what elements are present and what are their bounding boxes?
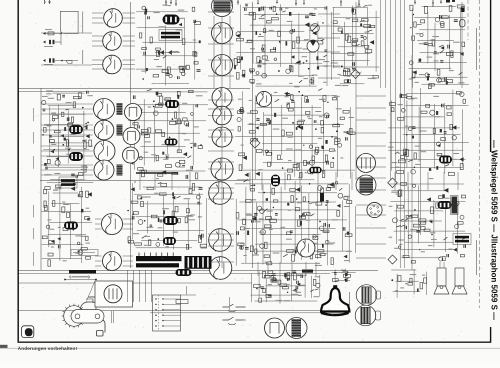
wire: vertical bus x462 bbox=[461, 2, 463, 88]
cable end plug bbox=[97, 331, 104, 337]
connector block (dashed) bbox=[153, 295, 181, 331]
wire: chassis bus y273 bbox=[18, 273, 330, 275]
tube V11 left column bbox=[94, 99, 115, 120]
small dark bar near CRT base bbox=[302, 270, 313, 273]
drum drive lever bbox=[80, 302, 96, 310]
tube top-view T13 below yoke bbox=[176, 269, 192, 276]
wire: horizontal bus below tuner bbox=[18, 91, 130, 93]
diamond test-point D3 bbox=[388, 178, 398, 188]
wire: vertical bus x412 bbox=[411, 55, 413, 270]
tube V15 (PL 500) bbox=[102, 214, 123, 235]
picture tube rim bbox=[321, 312, 349, 317]
circuit wiring: video amplifier bbox=[331, 5, 380, 85]
wire: vertical bus x130 bbox=[130, 2, 132, 268]
IF transformer Tr1 bbox=[161, 32, 180, 35]
circuit wiring: power supply left bbox=[41, 183, 93, 267]
screen rect beside V12 bbox=[117, 125, 123, 136]
loudspeaker LS1 bbox=[437, 268, 446, 286]
publisher logo bbox=[22, 326, 34, 338]
picture tube AW 43-80 bell bbox=[321, 288, 349, 311]
picture tube neck nub bbox=[333, 285, 337, 288]
diamond test-point D2 bbox=[250, 138, 260, 148]
circuit wiring: vertical deflection centre bbox=[235, 89, 355, 180]
svg-text:Änderungen vorbehalten!: Änderungen vorbehalten! bbox=[18, 345, 78, 351]
circuit wiring: speaker wiring right bbox=[391, 269, 427, 298]
tube V2 (EC 92) bbox=[103, 32, 122, 51]
tuning drum body bbox=[71, 310, 104, 324]
tube V12 bbox=[94, 120, 114, 140]
tube top-view T9 vertical bbox=[271, 175, 280, 187]
tube V17 bbox=[209, 182, 232, 205]
tube half-circle column x131 b bbox=[123, 128, 140, 145]
tube V9 bbox=[212, 127, 232, 147]
tube top-view T10 bbox=[309, 167, 322, 174]
tube top-view T11 bbox=[439, 156, 452, 164]
dark block right column bbox=[452, 197, 458, 214]
loudspeaker LS2 bbox=[455, 268, 464, 286]
wire: lower distribution bus bbox=[18, 282, 252, 284]
tube V20 sound output bbox=[357, 154, 376, 173]
wire: CRT grid line bbox=[150, 312, 322, 314]
antenna balun box (Berührungsschutz) bbox=[60, 11, 78, 33]
top edge stubs bbox=[44, 0, 46, 4]
drum cable to plug bbox=[103, 320, 106, 333]
tube top-view T1 bbox=[163, 15, 180, 25]
ion trap partial circle upper bbox=[356, 285, 377, 306]
magic eye indicator bbox=[307, 40, 319, 52]
screen rect beside V11 bbox=[117, 103, 123, 115]
svg-text:— Weltspiegel 5059 S — Jllust: — Weltspiegel 5059 S — Jllustraphon 5059… bbox=[489, 140, 498, 320]
rule: light separator below frame bbox=[0, 347, 500, 349]
tube V21 with screen can bbox=[356, 175, 376, 195]
tube top-view T5 bbox=[69, 152, 83, 161]
tube V19 bbox=[209, 257, 232, 280]
tube V18 bbox=[209, 229, 232, 252]
tube top-view T7 bbox=[163, 216, 178, 225]
wire: HT bus mid left bbox=[40, 180, 250, 182]
ion trap partial circle lower bbox=[355, 305, 376, 326]
value box 6DW 20 ohm label bbox=[71, 250, 98, 256]
circuit wiring: line oscillator mid-left bbox=[126, 90, 208, 179]
wire: left vertical bus bbox=[40, 88, 42, 270]
tube socket view V22 bbox=[367, 202, 382, 217]
frame: right border lower bbox=[490, 327, 492, 343]
width coil black bar bbox=[69, 270, 96, 273]
circuit wiring: focus divider bbox=[332, 269, 356, 283]
wire: vertical bus x252 bbox=[252, 2, 254, 268]
tube V5 (EF 80) bbox=[212, 23, 233, 44]
circuit wiring: tuner / IF strip top bbox=[136, 5, 201, 85]
tube V10 bbox=[211, 158, 233, 180]
tube V4 with screened cage bbox=[212, 0, 233, 17]
inter-section connecting wires bbox=[92, 12, 104, 14]
socket circle in inset bbox=[104, 285, 122, 303]
tube top-view T8 bbox=[163, 237, 176, 245]
inset box: socket detail bbox=[95, 281, 133, 307]
tube V13 bbox=[94, 141, 115, 162]
label strokes along left margin bbox=[33, 108, 35, 121]
rectifier stadium symbol bbox=[460, 20, 466, 28]
gutter filler wires x325-335 bbox=[326, 6, 328, 86]
tube top-view T3 bbox=[165, 139, 178, 146]
wire: antenna lead-in bbox=[43, 32, 61, 34]
circuit wiring: sync separator left bbox=[42, 91, 93, 180]
label: 242 V bbox=[186, 286, 188, 295]
registration mark bottom left edge bbox=[0, 345, 8, 348]
boundary: dashed section border x468 bbox=[467, 0, 469, 40]
diamond test-point D1 bbox=[351, 70, 360, 79]
circuit wiring: audio output right bbox=[388, 90, 469, 179]
dark stubs at top edge right bbox=[446, 0, 450, 3]
frame: bottom border bbox=[18, 341, 491, 343]
label: beside drum bbox=[111, 310, 113, 323]
fuse black rect centre bbox=[320, 193, 324, 202]
deflection yoke winding lower bar bbox=[136, 263, 179, 267]
antenna input components row 3 (0,75 MHz trap) bbox=[43, 59, 46, 62]
IF transformer Tr3 bbox=[455, 236, 469, 239]
tube V14 bbox=[94, 160, 114, 180]
cable run: loom lines top right bbox=[380, 0, 382, 88]
circuit wiring: CRT base wiring bbox=[251, 271, 320, 304]
label: Leitungsfolge (rotated) bbox=[412, 15, 414, 55]
IF transformer Tr2 bbox=[61, 179, 75, 182]
tube V16 (PY 88) bbox=[103, 252, 122, 271]
tube V6 (EF 80) bbox=[212, 55, 233, 76]
tube V8 bbox=[213, 106, 232, 125]
boundary: dashed section border x478 bbox=[479, 0, 481, 308]
top edge connection stubs bbox=[165, 0, 167, 6]
antenna input components row 1 (4,67 µH) bbox=[43, 32, 46, 35]
wire: chassis bus y270 bbox=[18, 270, 378, 272]
loudspeaker symbol circle bbox=[265, 318, 285, 338]
antenna input components row 2 (UKW choke) bbox=[43, 41, 46, 44]
circuit wiring: sound section top right bbox=[409, 5, 469, 89]
tube V7 column circle 1 bbox=[212, 88, 232, 108]
switch contact pair lower bbox=[223, 317, 246, 320]
yoke connection ticks bbox=[138, 253, 140, 257]
wires feeding connector block bbox=[127, 270, 129, 302]
resistor above connector bbox=[176, 300, 188, 304]
tube top-view T2 bbox=[165, 100, 179, 108]
deflection yoke right block with slits bbox=[185, 256, 212, 269]
measure arrows 150 µH bbox=[65, 279, 96, 281]
tube top-view T12 bbox=[438, 201, 452, 209]
fuse black mark top right bbox=[461, 8, 465, 13]
wire: vertical bus x356 bbox=[355, 2, 357, 180]
background speckle (decorative) bbox=[170, 52, 173, 55]
label: vertical text x476 bbox=[476, 28, 478, 70]
frame: right border rule upper bbox=[490, 0, 492, 152]
label: AW 43-80 bbox=[349, 292, 351, 306]
switch contact pair upper bbox=[223, 304, 246, 307]
tuning pointer circle bbox=[311, 24, 320, 33]
label: vertical text right of connector bbox=[229, 297, 231, 311]
label: vertical text right of balun box bbox=[82, 12, 84, 34]
tuning drum gear wheel bbox=[64, 306, 85, 327]
frame: left border bbox=[17, 0, 19, 342]
deflection yoke winding upper bar bbox=[136, 256, 182, 261]
tube V23 ratio detector bbox=[256, 91, 271, 106]
screen rect beside V14 bbox=[117, 165, 123, 176]
tube V1 (EC 92) bbox=[104, 9, 123, 28]
wire: CRT cathode line bbox=[18, 310, 322, 312]
small sockets left of speakers bbox=[376, 291, 381, 299]
wire: horizontal supply bus upper left bbox=[18, 88, 250, 90]
circuit wiring: audio right lower bbox=[389, 182, 466, 263]
tube V24 bbox=[297, 239, 315, 257]
output transformer circle with lamination bbox=[286, 318, 307, 339]
circuit wiring: line output mid bbox=[127, 181, 207, 249]
tube half-circle column x131 a bbox=[125, 104, 142, 121]
wire: heavy line yoke feed bbox=[136, 172, 178, 174]
tube V3 (EC 92) bbox=[103, 55, 122, 74]
circuit wiring: IF amplifier bbox=[234, 4, 329, 87]
label: vertical text (Flachantenne) bbox=[82, 50, 84, 64]
diamond test-point D4 bbox=[388, 255, 397, 264]
tube half-circle column x131 c bbox=[123, 147, 139, 163]
wire: vertical bus x420 bbox=[420, 88, 422, 235]
leader line from inset to drum bbox=[86, 281, 95, 302]
diode row below T1 bbox=[160, 50, 172, 55]
tube top-view T6 bbox=[64, 222, 78, 230]
circuit wiring: boost rectifier centre bbox=[235, 179, 356, 265]
tube top-view T4 bbox=[69, 125, 83, 134]
